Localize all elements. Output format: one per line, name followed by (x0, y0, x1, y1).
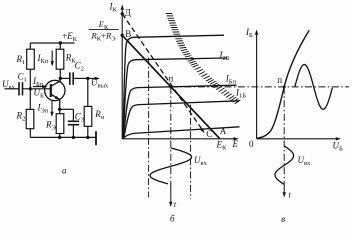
wire Rn to ground rail (87, 126, 89, 137)
point D (121, 12, 124, 15)
wire collector to C2 (60, 77, 69, 79)
svg-text:Д: Д (125, 7, 131, 17)
svg-text:I1Б​: I1Б​ (235, 88, 246, 100)
svg-text:RК​+RЭ​: RК​+RЭ​ (90, 31, 116, 43)
current arrow Iep (51, 101, 53, 115)
curve Ibp (123, 85, 236, 138)
wire +Ek supply rail (30, 42, 74, 44)
svg-text:t: t (174, 199, 177, 209)
hatched band (power limit hyperbola) (166, 14, 241, 104)
transistor emitter lead with arrow (51, 94, 60, 99)
resistor Rn (84, 106, 92, 126)
svg-text:а: а (62, 166, 67, 176)
node emitter (58, 108, 61, 111)
wire Re to ground rail (59, 134, 61, 138)
dash-dot guide left (148, 58, 150, 198)
wire C3 top lead (72, 109, 74, 121)
junction C3-rail (72, 136, 75, 139)
capacitor C1 (18, 82, 20, 95)
t axis under chart v (283, 185, 285, 195)
wire base node to R2 (29, 89, 31, 110)
capacitor C3 (68, 120, 79, 122)
wire R1 bottom to base node (29, 69, 31, 89)
svg-text:б: б (170, 214, 175, 224)
svg-text:Rн​: Rн​ (94, 109, 105, 121)
node collector (59, 77, 62, 80)
current arrow Ibp (33, 86, 45, 88)
sine Uvx under chart v (275, 146, 294, 184)
resistor R1 (27, 49, 35, 69)
svg-text:EК​: EК​ (216, 140, 228, 152)
curve I1b (124, 101, 239, 139)
dash-dot vertical through p (chart v) (283, 87, 285, 185)
wire C1 to base (23, 88, 50, 90)
axis E (horizontal) (122, 138, 235, 140)
curve Ib=0 (123, 127, 240, 139)
wire C2 to output node (73, 77, 87, 79)
dash-dot guide through p (170, 87, 172, 186)
capacitor C2 (69, 72, 71, 85)
svg-text:Uвх​: Uвх​ (194, 155, 208, 167)
resistor RK (56, 49, 64, 69)
dash-dot guide right (190, 105, 192, 200)
wire input to C1 (5, 88, 19, 90)
wire Rk top (59, 43, 61, 49)
svg-text:t: t (289, 190, 292, 200)
svg-text:IБ​: IБ​ (245, 27, 253, 39)
svg-text:I2Б​: I2Б​ (219, 50, 230, 62)
wire Rk bottom to collector node (59, 69, 61, 78)
svg-text:А: А (220, 126, 227, 136)
svg-text:Uвых​: Uвых​ (91, 78, 109, 90)
t axis under chart b (170, 185, 172, 204)
svg-text:RЭ​: RЭ​ (45, 120, 57, 132)
svg-text:IКп​: IКп​ (37, 53, 49, 65)
wire R2 to ground rail (29, 129, 31, 138)
sine Uvx under chart b (150, 148, 192, 184)
svg-text:UБ​: UБ​ (333, 141, 344, 153)
node output (86, 77, 89, 80)
svg-text:п: п (168, 73, 173, 83)
dash-dot horizontal through p (171, 86, 349, 88)
svg-text:IЭп​: IЭп​ (37, 103, 49, 115)
point B (121, 34, 124, 37)
wire C3 bottom lead (72, 125, 74, 137)
junction Rn-rail (86, 136, 89, 139)
axis Ib (vertical) (256, 33, 258, 139)
sine Ib output (right of curve) (295, 65, 333, 110)
transistor VT (npn) (45, 80, 65, 100)
svg-text:С: С (206, 129, 212, 139)
axis Ik (vertical) (121, 8, 123, 139)
wire emitter to Re (59, 109, 61, 113)
svg-text:0: 0 (249, 139, 254, 149)
ground (95, 131, 97, 145)
resistor R2 (26, 109, 34, 128)
svg-text:IК​: IК​ (109, 2, 118, 14)
transistor collector lead (51, 81, 61, 86)
output arrow (88, 77, 97, 79)
svg-text:R2​: R2​ (16, 111, 26, 123)
operating point p (169, 85, 172, 88)
svg-text:R1​: R1​ (16, 54, 26, 66)
svg-text:п: п (277, 75, 282, 85)
resistor Re (56, 114, 64, 134)
wire output node to Rn (87, 78, 89, 106)
svg-text:IБп​: IБп​ (225, 74, 237, 86)
svg-text:Uвх​: Uвх​ (298, 155, 312, 167)
load line B-A (dc) (122, 35, 220, 138)
axis Ub (horizontal) (257, 138, 338, 140)
transistor base bar (50, 84, 52, 97)
junction Re-rail (58, 136, 61, 139)
operating point p (chart v) (283, 85, 286, 88)
svg-text:Е: Е (232, 139, 239, 149)
svg-text:в: в (281, 214, 285, 224)
load line D-C (dashed, ac) (122, 14, 202, 130)
svg-text:В: В (125, 29, 131, 39)
wire ground rail (30, 136, 96, 138)
wire R1 top (29, 43, 31, 49)
svg-text:+EК​: +EК​ (62, 31, 78, 43)
current arrow Ikp (51, 51, 53, 64)
curve Ib max (123, 35, 224, 138)
wire emitter node to C3 (60, 108, 74, 110)
curve I2b (123, 58, 227, 138)
svg-text:C1​: C1​ (18, 72, 27, 84)
svg-text:C2​: C2​ (75, 61, 84, 73)
node supply junction (59, 41, 62, 44)
transfer characteristic curve (257, 30, 309, 138)
node base divider (29, 87, 32, 90)
